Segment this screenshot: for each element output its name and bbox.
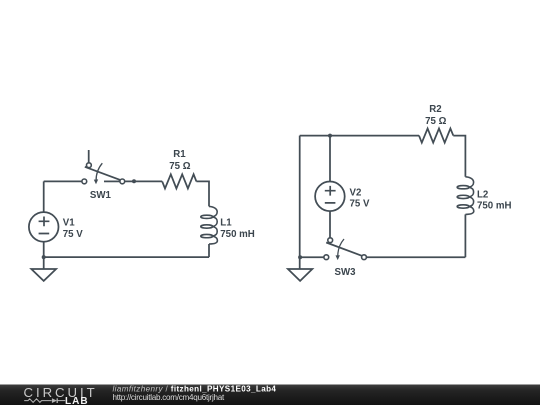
- voltage source V1: [29, 212, 83, 242]
- inductor L2: [457, 177, 511, 215]
- svg-text:SW3: SW3: [335, 267, 357, 278]
- wire SW1 to R1: [125, 180, 163, 182]
- CircuitLab logo squiggle (resistor + diode): [24, 398, 65, 403]
- wire V2 bottom to SW3: [329, 211, 331, 238]
- wire V2 top branch: [329, 136, 331, 182]
- switch SW1: [82, 163, 125, 201]
- svg-text:SW1: SW1: [90, 190, 112, 201]
- svg-text:V2: V2: [350, 188, 362, 199]
- wire R2 to top-right corner: [453, 136, 465, 177]
- svg-text:LAB: LAB: [65, 396, 89, 405]
- voltage source V2: [315, 182, 370, 212]
- svg-text:75 V: 75 V: [350, 199, 370, 210]
- svg-text:V1: V1: [63, 218, 75, 229]
- switch SW3: [324, 238, 367, 278]
- ground (right circuit): [288, 269, 312, 281]
- svg-text:R1: R1: [173, 149, 186, 160]
- node D (SW3 / ground junction): [298, 255, 302, 259]
- wire SW1 right lead: [104, 180, 120, 182]
- wire bottom (left circuit): [44, 256, 209, 258]
- svg-text:L1: L1: [220, 218, 232, 229]
- node B (SW1 output): [132, 179, 136, 183]
- resistor R2: [419, 104, 453, 143]
- svg-text:R2: R2: [429, 104, 441, 115]
- wire SW3 left lead: [300, 256, 324, 258]
- resistor R1: [162, 149, 196, 189]
- inductor L1: [201, 206, 255, 244]
- wire SW1 stub vertical: [88, 150, 90, 163]
- wire top (right circuit, left of R2): [300, 135, 419, 137]
- wire top-left horizontal (V1 top to SW1 left): [44, 180, 82, 182]
- wire left vertical lower (V1 bottom to ground): [43, 242, 45, 269]
- wire L2 bottom to corner: [464, 214, 466, 257]
- wire left vertical (right circuit) to ground: [299, 136, 301, 269]
- wire R1 to top-right corner: [196, 181, 209, 206]
- svg-text:75 Ω: 75 Ω: [425, 116, 446, 127]
- node A (V1 bottom junction): [42, 255, 46, 259]
- svg-text:750 mH: 750 mH: [220, 229, 254, 240]
- node C (top wire / V2 branch): [328, 134, 332, 138]
- wire left vertical upper (to V1 top): [43, 181, 45, 212]
- svg-text:75 Ω: 75 Ω: [169, 161, 190, 172]
- svg-text:L2: L2: [477, 189, 488, 200]
- ground (left circuit): [31, 269, 56, 281]
- wire L1 bottom to corner: [208, 244, 210, 257]
- svg-text:75 V: 75 V: [63, 229, 83, 240]
- svg-text:750 mH: 750 mH: [477, 201, 511, 212]
- svg-text:http://circuitlab.com/cm4qu6tj: http://circuitlab.com/cm4qu6tjrjhat: [113, 393, 225, 402]
- wire bottom (right circuit): [366, 256, 465, 258]
